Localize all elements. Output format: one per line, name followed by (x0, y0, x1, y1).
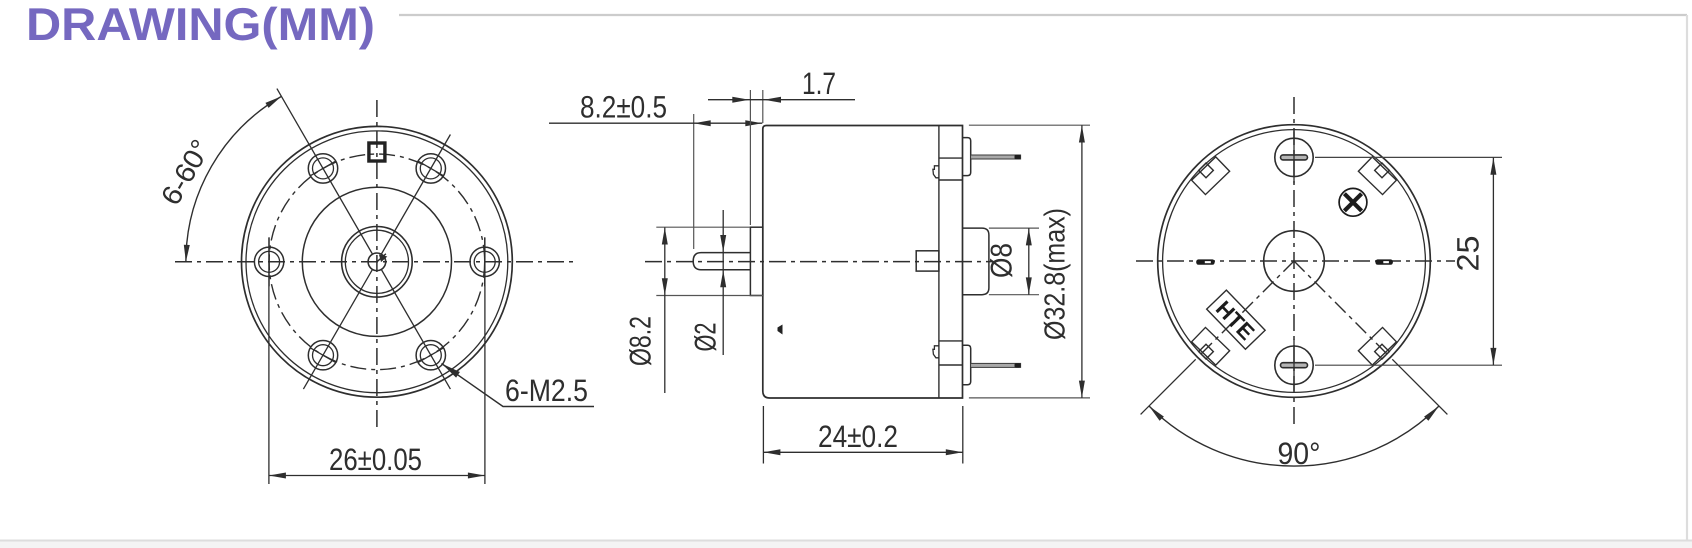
front view: lower-left spoke (303, 270, 372, 390)
dimension 25 arrow down (1490, 348, 1496, 365)
dimension 6-60 arc arrow upper (265, 96, 281, 108)
side view: horizontal axis centerline (645, 261, 992, 263)
side view: cap lower notch (933, 346, 939, 358)
side view: top pin (971, 155, 1021, 159)
back view: crossed index circle (1339, 188, 1367, 216)
front view: top locating tab (369, 143, 385, 161)
dimension dia32.8 arrow down (1079, 381, 1085, 398)
dimension 24 arrow left (763, 449, 780, 455)
svg-text:8.2±0.5: 8.2±0.5 (580, 90, 667, 125)
front view: vertical centerline (376, 100, 378, 428)
dimension dia8 line (1028, 228, 1030, 295)
dimension 1.7 line (708, 99, 855, 101)
dimension 8.2 extension line at shaft tip (693, 114, 695, 249)
dimension dia8 arrow down (1026, 277, 1032, 294)
front view: face circle (302, 187, 451, 336)
page footer strip (0, 542, 1692, 548)
dimension 24 left extension line (762, 406, 764, 464)
front view: upper-left spoke (277, 89, 373, 254)
dimension dia2 arrow down to shaft top (720, 235, 726, 252)
dimension 25 arrow up (1490, 158, 1496, 175)
dimension 90 arrow right (1424, 406, 1439, 421)
side view: motor body outline (763, 126, 963, 399)
svg-text:25: 25 (1451, 236, 1486, 272)
dimension dia32.8 top extension line (969, 124, 1090, 126)
front view: upper-right spoke (381, 135, 450, 255)
dimension 1.7 left extension line (749, 90, 751, 225)
dimension 26 arrow right (468, 473, 485, 479)
dimension 90 arrow left (1149, 406, 1164, 421)
dimension dia2 arrow up to shaft bottom (720, 270, 726, 287)
dimension 26 left extension line (268, 238, 270, 485)
side view: shaft (693, 253, 750, 270)
page right border (1686, 15, 1688, 540)
front view: inner rim circle (246, 131, 508, 393)
side view: front bearing boss (750, 227, 762, 295)
back view: left vent dash (1196, 259, 1215, 264)
dimension dia32.8 line (1081, 125, 1083, 398)
dimension dia8 bottom extension line (989, 294, 1039, 296)
front view: lower-left screw hole (308, 341, 337, 370)
dimension dia8.2 line (664, 228, 666, 394)
svg-text:DRAWING(MM): DRAWING(MM) (26, 0, 375, 50)
front view: lower-right screw hole (416, 341, 445, 370)
front view: horizontal centerline (175, 261, 578, 263)
back view: outer case circle (1158, 125, 1431, 398)
svg-text:Ø8: Ø8 (986, 243, 1019, 278)
dimension 26 line (269, 475, 485, 477)
svg-text:Ø8.2: Ø8.2 (625, 316, 658, 366)
dimension dia32.8 arrow up (1079, 126, 1085, 143)
dimension 1.7 arrow left (732, 97, 749, 103)
side view: cap bottom terminal lower line (939, 364, 963, 366)
side view: bottom terminal block (963, 345, 971, 384)
svg-text:Ø2: Ø2 (690, 323, 723, 352)
front view: right screw hole (470, 237, 499, 286)
dimension 24 right extension line (962, 406, 964, 464)
back view: lower-right diagonal centerline (1294, 261, 1391, 358)
back view: horizontal centerline (1136, 260, 1455, 262)
back view: HTE label box (1207, 290, 1265, 349)
dimension dia8 top extension line (989, 227, 1039, 229)
front view: upper-left screw hole (308, 154, 337, 183)
dimension 1.7 arrow right (764, 97, 781, 103)
back view: upper-left vent slot (1192, 157, 1230, 195)
svg-text:1.7: 1.7 (802, 66, 836, 101)
side view: top terminal block (963, 138, 971, 176)
side view: end cap strip left edge (938, 126, 940, 399)
leader 6-M2.5 line (442, 364, 595, 407)
back view: lower-left diagonal centerline (1197, 261, 1294, 358)
svg-text:90°: 90° (1278, 436, 1321, 471)
back view: center hole (1264, 231, 1325, 292)
dimension 25 top extension line (1315, 156, 1502, 158)
front view: lower-right spoke (381, 270, 450, 390)
side view: bottom pin (971, 363, 1021, 367)
back view: lower-right vent slot (1358, 327, 1396, 365)
back view: lower-left vent slot (1192, 327, 1230, 365)
dimension 24 line (763, 451, 962, 453)
front view: hub outer circle (342, 226, 413, 297)
dimension 8.2 arrow right (745, 120, 762, 126)
side view: brush housing bump (963, 228, 989, 295)
side view: bottom pin tip (1015, 363, 1021, 367)
leader 6-M2.5 arrow (442, 364, 460, 378)
front view: shaft keyway flag (377, 254, 386, 262)
dimension 25 line (1492, 157, 1494, 365)
back view: upper-right vent slot (1358, 157, 1396, 195)
svg-text:26±0.05: 26±0.05 (329, 442, 422, 477)
back view: right vent dash (1375, 259, 1393, 264)
front view: hub inner circle (345, 230, 408, 293)
dimension 90 lower-left extension line (1141, 359, 1196, 414)
back view: bottom screw (1275, 339, 1313, 391)
side view: cap top terminal upper line (939, 157, 963, 159)
dimension 6-60 arc arrow lower (184, 245, 190, 262)
side view: cap bottom terminal upper line (939, 340, 963, 342)
dimension dia8.2 top extension line (656, 226, 750, 228)
dimension dia8.2 arrow down (662, 278, 668, 295)
dimension 8.2 line (549, 122, 762, 124)
dimension 90 arc (1149, 406, 1439, 466)
dimension dia8.2 bottom extension line (656, 295, 763, 297)
dimension 6-60 arc (186, 96, 282, 261)
dimension dia2 line (722, 210, 724, 355)
svg-text:Ø32.8(max): Ø32.8(max) (1040, 208, 1072, 340)
front view: outer flange circle (242, 126, 513, 397)
back view: top screw (1275, 131, 1313, 183)
side view: bearing boss inside cap (916, 251, 939, 271)
dimension dia32.8 bottom extension line (969, 397, 1090, 399)
side view: cap upper notch (933, 166, 939, 178)
dimension dia8.2 arrow up (662, 228, 668, 245)
dimension 25 bottom extension line (1315, 364, 1502, 366)
side view: small vent mark (778, 325, 783, 335)
back view: vertical centerline (1293, 97, 1295, 425)
svg-text:6-M2.5: 6-M2.5 (505, 373, 588, 408)
dimension 8.2 arrow left (694, 120, 711, 126)
svg-text:24±0.2: 24±0.2 (818, 419, 898, 454)
dimension 90 lower-right extension line (1392, 359, 1447, 414)
page bottom rule (0, 540, 1692, 542)
dimension 26 right extension line (484, 238, 486, 485)
front view: bolt circle (dash-dot) (269, 154, 485, 370)
page header rule (399, 14, 1687, 16)
dimension 24 arrow right (946, 449, 963, 455)
front view: upper-right screw hole (416, 154, 445, 183)
dimension dia8 arrow up (1026, 228, 1032, 245)
dimension 1.7 right extension line (762, 90, 764, 123)
front view: shaft circle (368, 253, 386, 271)
dimension 26 arrow left (269, 473, 286, 479)
back view: inner rim circle (1163, 130, 1426, 393)
side view: cap top terminal lower line (939, 179, 963, 181)
side view: top pin tip (1015, 155, 1021, 159)
front view: left screw hole (254, 237, 283, 286)
